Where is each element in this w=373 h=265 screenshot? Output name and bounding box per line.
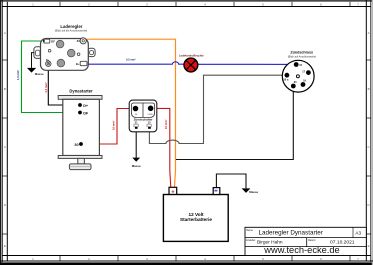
svg-text:B+: B+ (76, 62, 80, 66)
svg-text:Masse: Masse (132, 164, 141, 168)
svg-text:Starterbatterie: Starterbatterie (180, 217, 212, 222)
svg-text:16 mm²: 16 mm² (112, 120, 116, 130)
svg-text:Dynastarter: Dynastarter (69, 88, 93, 93)
svg-text:E: E (4, 244, 6, 248)
svg-text:A: A (368, 31, 370, 35)
svg-text:(Blick auf die Anschlussseite): (Blick auf die Anschlussseite) (55, 29, 88, 32)
svg-text:E: E (368, 244, 370, 248)
svg-text:Masse: Masse (249, 190, 258, 194)
svg-text:+: + (171, 190, 175, 196)
svg-text:www.tech-ecke.de: www.tech-ecke.de (263, 245, 339, 255)
svg-text:1,5 mm²: 1,5 mm² (16, 70, 20, 80)
svg-text:30: 30 (74, 143, 78, 147)
svg-text:D+: D+ (83, 104, 89, 108)
svg-text:D+: D+ (46, 59, 50, 62)
svg-text:B: B (4, 87, 6, 91)
svg-text:Zündschloss: Zündschloss (290, 51, 313, 55)
svg-text:(Blick auf Anschlussseite): (Blick auf Anschlussseite) (288, 56, 317, 59)
svg-text:Ladekontrollleuchte: Ladekontrollleuchte (179, 53, 204, 57)
svg-text:16 mm²: 16 mm² (164, 119, 168, 129)
svg-text:DF: DF (83, 111, 89, 115)
svg-text:DF: DF (51, 39, 55, 43)
svg-text:B: B (368, 87, 370, 91)
svg-text:Masse: Masse (35, 72, 44, 76)
svg-text:Laderegler Dynastarter: Laderegler Dynastarter (259, 230, 323, 237)
svg-text:51/30: 51/30 (147, 114, 153, 116)
svg-text:2,5 mm²: 2,5 mm² (44, 82, 48, 92)
svg-text:A: A (4, 31, 6, 35)
svg-text:Ersteller:: Ersteller: (246, 239, 256, 242)
svg-text:A3: A3 (355, 230, 361, 235)
svg-text:61: 61 (77, 39, 80, 43)
svg-text:Datum:: Datum: (308, 239, 316, 242)
svg-text:0,5 mm²: 0,5 mm² (126, 57, 136, 61)
svg-text:50 a: 50 a (284, 78, 289, 81)
svg-text:Name:: Name: (246, 229, 253, 232)
